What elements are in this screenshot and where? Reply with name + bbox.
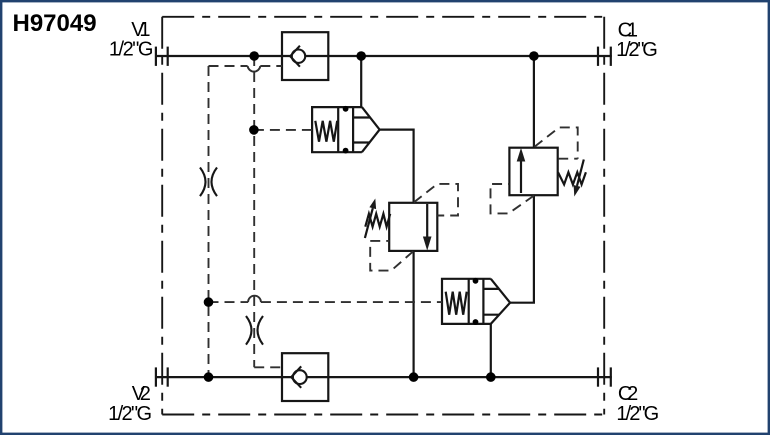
svg-text:1/2"G: 1/2"G <box>616 403 659 425</box>
svg-text:1/2"G: 1/2"G <box>109 39 153 61</box>
svg-text:C2: C2 <box>618 383 638 405</box>
svg-text:V2: V2 <box>132 383 151 405</box>
svg-text:C1: C1 <box>618 19 638 41</box>
svg-text:H97049: H97049 <box>13 10 97 37</box>
svg-text:1/2"G: 1/2"G <box>108 403 152 425</box>
svg-text:1/2"G: 1/2"G <box>616 39 658 61</box>
